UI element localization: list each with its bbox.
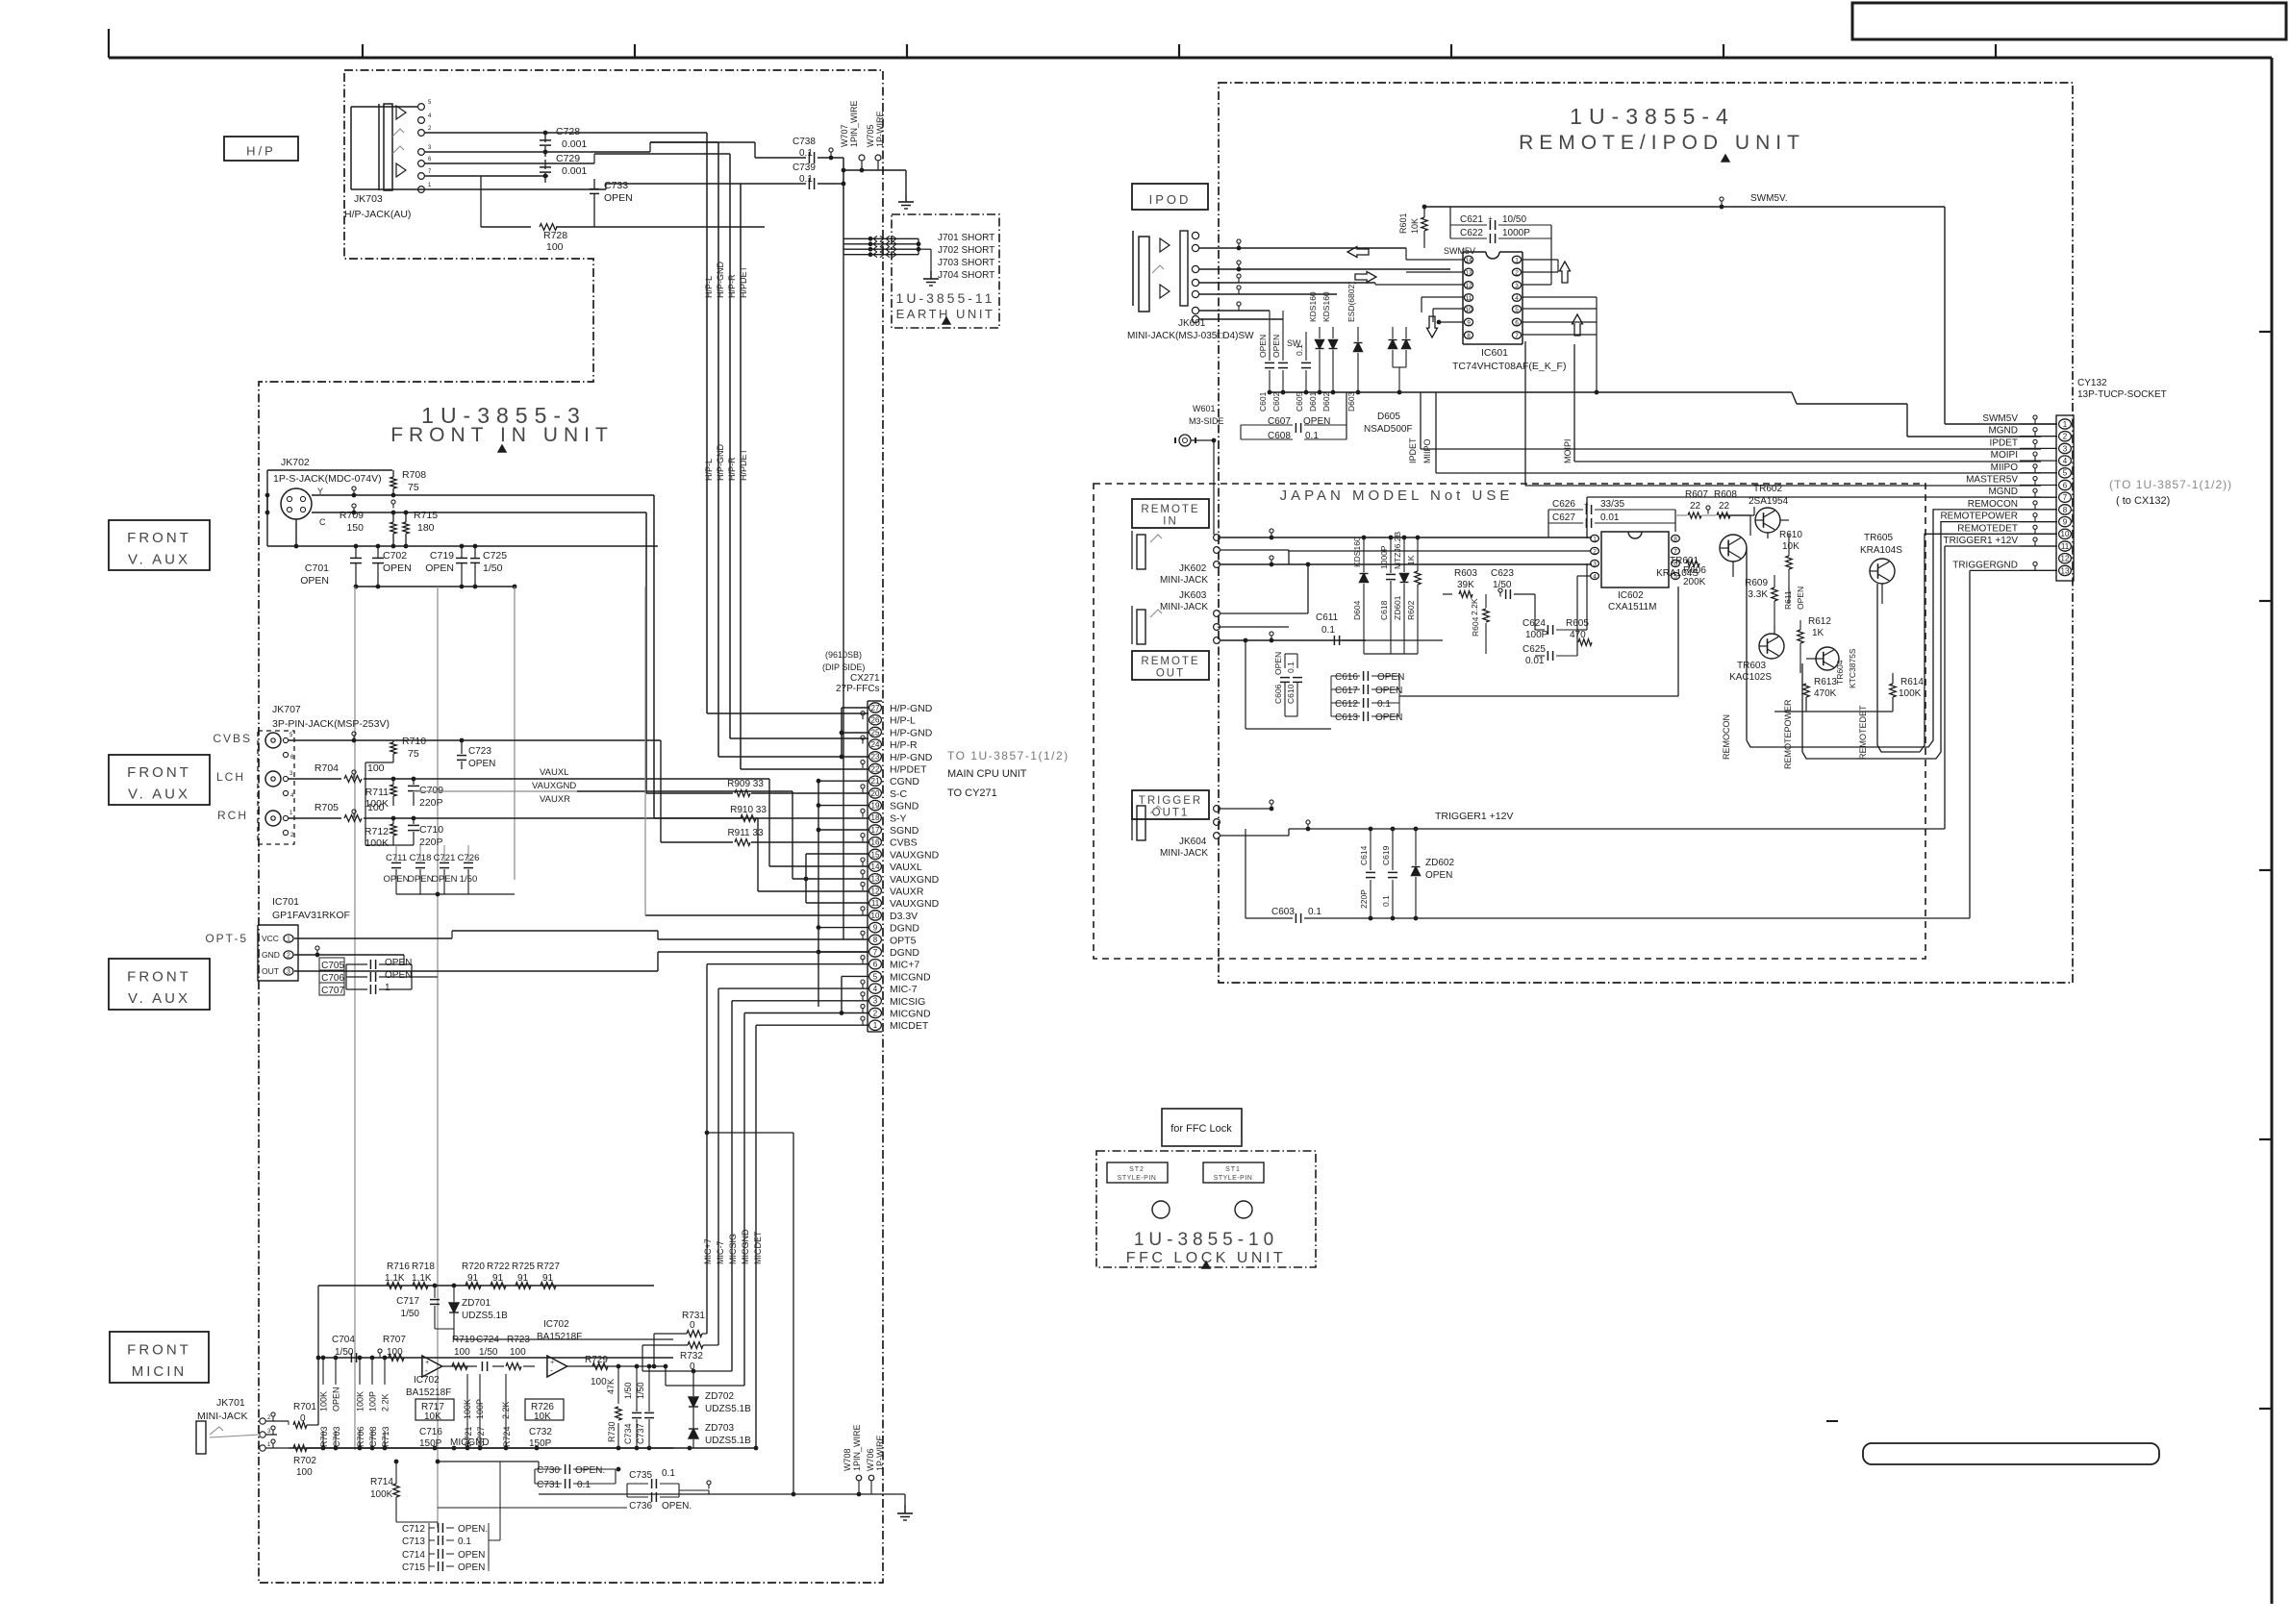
svg-text:D604: D604: [1352, 600, 1362, 620]
svg-text:OPEN: OPEN: [432, 874, 458, 885]
svg-text:DGND: DGND: [890, 947, 919, 959]
svg-text:IC702: IC702: [543, 1319, 569, 1330]
svg-text:CGND: CGND: [890, 776, 919, 787]
svg-text:OPEN.: OPEN.: [458, 1524, 488, 1535]
svg-text:100: 100: [367, 762, 385, 774]
svg-text:8: 8: [873, 936, 878, 944]
svg-text:3: 3: [287, 969, 290, 976]
svg-text:0.01: 0.01: [1600, 512, 1620, 523]
svg-text:26: 26: [871, 716, 880, 725]
svg-text:R606: R606: [1683, 565, 1706, 576]
svg-text:TO 1U-3857-1(1/2): TO 1U-3857-1(1/2): [947, 749, 1070, 762]
svg-text:0: 0: [690, 1362, 695, 1372]
svg-text:C721: C721: [434, 853, 456, 863]
svg-text:C716: C716: [419, 1427, 442, 1437]
svg-text:C606: C606: [1273, 684, 1283, 704]
svg-text:GND: GND: [262, 950, 280, 960]
svg-text:1000P: 1000P: [1502, 228, 1530, 238]
svg-text:5: 5: [2063, 469, 2068, 478]
svg-text:R613: R613: [1814, 677, 1837, 687]
svg-text:0.1: 0.1: [662, 1468, 675, 1479]
svg-text:CVBS: CVBS: [890, 837, 918, 849]
svg-text:ZD703: ZD703: [705, 1423, 734, 1434]
svg-text:OUT: OUT: [1156, 668, 1185, 680]
svg-text:0.1: 0.1: [1321, 625, 1335, 636]
svg-text:MICGND: MICGND: [890, 971, 931, 983]
svg-text:C735: C735: [629, 1470, 652, 1481]
svg-text:OPT-5: OPT-5: [205, 932, 248, 945]
svg-text:TRIGGER: TRIGGER: [1139, 795, 1202, 807]
svg-text:2.2K: 2.2K: [381, 1393, 390, 1412]
svg-text:R710: R710: [402, 736, 426, 747]
svg-text:MOIPI: MOIPI: [1563, 438, 1573, 463]
svg-text:R609: R609: [1745, 578, 1768, 588]
svg-text:MIC-7: MIC-7: [716, 1241, 725, 1265]
svg-text:VAUXL: VAUXL: [890, 862, 922, 873]
svg-text:D603: D603: [1346, 391, 1356, 412]
svg-text:MICIN: MICIN: [132, 1363, 188, 1380]
svg-text:C724: C724: [476, 1335, 499, 1345]
svg-text:R603: R603: [1454, 568, 1477, 579]
svg-text:OPEN: OPEN: [458, 1562, 485, 1573]
svg-text:BA15218F: BA15218F: [406, 1387, 451, 1398]
svg-text:3: 3: [2063, 444, 2068, 453]
svg-text:6: 6: [2063, 481, 2068, 489]
svg-text:1PIN_WIRE: 1PIN_WIRE: [852, 1424, 862, 1471]
svg-text:OPEN: OPEN: [1271, 335, 1281, 358]
svg-text:ZD701: ZD701: [462, 1298, 491, 1309]
svg-text:2: 2: [287, 953, 290, 960]
svg-text:180: 180: [417, 522, 435, 534]
svg-text:0.1: 0.1: [1295, 344, 1304, 356]
svg-text:R610: R610: [1779, 530, 1802, 540]
svg-text:C618: C618: [1379, 600, 1389, 620]
svg-text:5: 5: [1515, 307, 1519, 313]
svg-text:C715: C715: [402, 1562, 425, 1573]
svg-text:C710: C710: [419, 824, 443, 836]
svg-text:OPEN.: OPEN.: [575, 1465, 605, 1476]
svg-text:R719: R719: [452, 1335, 475, 1345]
svg-text:100K: 100K: [356, 1391, 365, 1412]
svg-text:C728: C728: [556, 126, 580, 137]
svg-text:2.2K: 2.2K: [1470, 598, 1479, 615]
svg-text:11: 11: [871, 899, 880, 908]
svg-text:1U-3855-4: 1U-3855-4: [1570, 104, 1735, 129]
svg-text:R607: R607: [1685, 489, 1708, 500]
svg-text:0.01: 0.01: [1525, 656, 1545, 666]
svg-text:100: 100: [296, 1467, 313, 1478]
svg-text:13P-TUCP-SOCKET: 13P-TUCP-SOCKET: [2077, 389, 2167, 400]
svg-text:R730: R730: [607, 1421, 617, 1442]
svg-text:10: 10: [2061, 530, 2070, 538]
svg-text:STYLE-PIN: STYLE-PIN: [1118, 1175, 1157, 1182]
svg-text:C704: C704: [332, 1335, 355, 1345]
svg-text:IPDET: IPDET: [1408, 437, 1418, 463]
svg-text:MIC+7: MIC+7: [703, 1238, 713, 1264]
svg-text:OPT5: OPT5: [890, 935, 917, 946]
svg-text:C613: C613: [1335, 712, 1358, 723]
svg-text:C726: C726: [458, 853, 480, 863]
svg-text:(TO 1U-3857-1(1/2)): (TO 1U-3857-1(1/2)): [2109, 478, 2232, 491]
svg-text:SGND: SGND: [890, 801, 919, 812]
svg-text:2: 2: [873, 1009, 878, 1017]
svg-text:H/P-R: H/P-R: [727, 274, 737, 298]
svg-text:REMOTEPOWER: REMOTEPOWER: [1940, 512, 2018, 522]
svg-text:2: 2: [2063, 433, 2068, 441]
svg-text:TRIGGER1 +12V: TRIGGER1 +12V: [1435, 811, 1513, 822]
svg-text:0.001: 0.001: [562, 138, 587, 150]
svg-text:75: 75: [408, 482, 419, 493]
svg-text:OUT1: OUT1: [1152, 808, 1190, 819]
svg-text:R701: R701: [293, 1402, 316, 1412]
svg-text:C: C: [319, 517, 326, 527]
svg-text:13: 13: [1465, 269, 1472, 276]
svg-text:R614: R614: [1900, 677, 1924, 687]
svg-text:7: 7: [873, 948, 878, 957]
svg-text:OPEN: OPEN: [384, 874, 410, 885]
svg-text:VAUXGND: VAUXGND: [890, 874, 940, 886]
svg-text:TR603: TR603: [1737, 661, 1766, 671]
svg-text:1/50: 1/50: [483, 562, 503, 574]
svg-text:OPEN: OPEN: [604, 192, 633, 204]
svg-text:JK602: JK602: [1179, 563, 1207, 574]
svg-text:M3-SIDE: M3-SIDE: [1189, 416, 1224, 426]
svg-text:0.1: 0.1: [458, 1537, 471, 1547]
svg-text:R604: R604: [1471, 616, 1480, 637]
svg-text:0.1: 0.1: [577, 1480, 591, 1490]
svg-text:12: 12: [1465, 283, 1472, 289]
svg-text:1000P: 1000P: [1379, 545, 1389, 569]
svg-text:OPEN: OPEN: [1375, 712, 1402, 723]
svg-text:C713: C713: [402, 1537, 425, 1547]
svg-text:+: +: [425, 1360, 429, 1366]
svg-text:IN: IN: [1163, 516, 1178, 528]
svg-text:19: 19: [871, 802, 880, 811]
svg-text:C601: C601: [1258, 391, 1268, 412]
svg-text:MGND: MGND: [1988, 426, 2018, 437]
svg-text:C734: C734: [623, 1423, 633, 1444]
svg-text:R712: R712: [365, 826, 389, 837]
svg-text:21: 21: [871, 777, 880, 786]
svg-text:C739: C739: [793, 162, 816, 173]
svg-text:D602: D602: [1321, 391, 1331, 412]
svg-text:C616: C616: [1335, 672, 1358, 683]
svg-text:H/P-GND: H/P-GND: [716, 444, 725, 482]
svg-text:FRONT: FRONT: [127, 764, 191, 781]
svg-text:R601: R601: [1398, 212, 1408, 234]
svg-text:JK701: JK701: [216, 1397, 245, 1409]
svg-text:10K: 10K: [1782, 541, 1799, 552]
svg-text:OPEN: OPEN: [385, 958, 412, 968]
svg-text:MINI-JACK: MINI-JACK: [1160, 848, 1208, 859]
svg-text:OPEN: OPEN: [425, 562, 454, 574]
svg-text:0.1: 0.1: [1308, 907, 1321, 917]
svg-text:KTC3875S: KTC3875S: [1848, 648, 1857, 688]
svg-text:0: 0: [690, 1320, 695, 1331]
svg-text:JK604: JK604: [1179, 837, 1207, 847]
svg-text:MICGND: MICGND: [741, 1229, 750, 1264]
svg-text:R711: R711: [365, 787, 389, 798]
svg-text:12: 12: [871, 887, 880, 895]
svg-text:CY132: CY132: [2077, 378, 2107, 388]
svg-text:STYLE-PIN: STYLE-PIN: [1214, 1175, 1253, 1182]
svg-text:7: 7: [1515, 333, 1519, 339]
svg-text:R722: R722: [487, 1262, 510, 1272]
svg-text:GP1FAV31RKOF: GP1FAV31RKOF: [272, 910, 350, 921]
svg-text:D601: D601: [1308, 391, 1318, 412]
svg-text:9: 9: [1467, 319, 1471, 326]
svg-text:MICGND: MICGND: [450, 1437, 490, 1448]
svg-text:OPEN: OPEN: [1796, 587, 1805, 610]
svg-text:C717: C717: [396, 1296, 419, 1307]
svg-text:2: 2: [1515, 269, 1519, 276]
svg-text:R909 33: R909 33: [727, 779, 764, 789]
svg-text:OPEN: OPEN: [383, 562, 412, 574]
svg-text:VAUXGND: VAUXGND: [890, 849, 940, 861]
svg-text:R724: R724: [502, 1426, 512, 1447]
svg-text:OUT: OUT: [262, 966, 279, 976]
svg-text:R705: R705: [315, 802, 339, 813]
svg-text:C718: C718: [410, 853, 432, 863]
svg-text:+: +: [550, 1360, 554, 1366]
svg-text:1/50: 1/50: [479, 1347, 498, 1358]
svg-text:MINI-JACK: MINI-JACK: [1160, 575, 1208, 586]
svg-text:4: 4: [873, 985, 878, 993]
svg-text:OPEN: OPEN: [1377, 672, 1404, 683]
svg-text:R714: R714: [370, 1477, 393, 1487]
svg-text:C706: C706: [321, 973, 344, 984]
svg-text:SWM5V: SWM5V: [1444, 246, 1475, 256]
svg-text:4: 4: [1593, 573, 1597, 580]
svg-text:OPEN: OPEN: [1273, 652, 1283, 675]
svg-text:KDS160: KDS160: [1352, 537, 1362, 567]
svg-text:R612: R612: [1808, 616, 1831, 627]
svg-text:C719: C719: [430, 550, 454, 562]
svg-text:H/P-GND: H/P-GND: [890, 703, 933, 714]
svg-text:1P-WIRE: 1P-WIRE: [875, 1435, 885, 1471]
svg-text:R709: R709: [340, 510, 364, 521]
svg-text:J701 SHORT: J701 SHORT: [938, 233, 994, 243]
svg-text:R611: R611: [1783, 590, 1793, 610]
svg-text:JAPAN MODEL Not USE: JAPAN MODEL Not USE: [1280, 487, 1514, 504]
svg-text:FRONT: FRONT: [127, 969, 191, 986]
svg-text:1.1K: 1.1K: [412, 1273, 432, 1284]
svg-text:13: 13: [2061, 566, 2070, 575]
svg-text:R723: R723: [507, 1335, 530, 1345]
svg-text:9: 9: [2063, 518, 2068, 527]
svg-text:22: 22: [1690, 501, 1701, 512]
svg-text:H/P-R: H/P-R: [890, 739, 918, 751]
svg-text:W707: W707: [840, 124, 849, 147]
svg-text:ESD(6802): ESD(6802): [1346, 282, 1356, 322]
svg-text:3.3K: 3.3K: [1748, 589, 1768, 600]
svg-text:1: 1: [287, 937, 290, 943]
svg-text:1: 1: [873, 1021, 878, 1030]
svg-text:7: 7: [1673, 548, 1677, 555]
svg-text:V. AUX: V. AUX: [128, 551, 190, 567]
svg-text:3: 3: [1593, 561, 1597, 567]
svg-text:C627: C627: [1552, 512, 1575, 523]
svg-text:W601: W601: [1193, 404, 1216, 413]
svg-text:R703: R703: [319, 1426, 329, 1447]
svg-text:470K: 470K: [1814, 688, 1837, 699]
svg-text:22: 22: [1719, 501, 1730, 512]
svg-text:16: 16: [871, 838, 880, 847]
svg-text:1: 1: [2063, 420, 2068, 429]
svg-text:220P: 220P: [419, 837, 443, 848]
svg-text:100: 100: [591, 1377, 607, 1387]
svg-text:C733: C733: [604, 180, 628, 191]
svg-text:D605: D605: [1377, 412, 1400, 422]
svg-text:MAIN CPU UNIT: MAIN CPU UNIT: [947, 768, 1027, 780]
svg-text:VAUXL: VAUXL: [540, 767, 568, 778]
svg-text:NSAD500F: NSAD500F: [1364, 424, 1413, 435]
svg-text:IC602: IC602: [1618, 590, 1644, 601]
svg-text:10: 10: [1465, 307, 1472, 313]
svg-text:CXA1511M: CXA1511M: [1608, 602, 1656, 612]
svg-text:10K: 10K: [424, 1412, 441, 1422]
svg-text:OPEN.: OPEN.: [662, 1501, 692, 1512]
svg-text:39K: 39K: [1457, 580, 1474, 590]
svg-text:1P-S-JACK(MDC-074V): 1P-S-JACK(MDC-074V): [273, 473, 382, 485]
svg-text:for FFC Lock: for FFC Lock: [1170, 1123, 1232, 1135]
svg-text:H/P-L: H/P-L: [704, 459, 714, 481]
svg-text:1/50: 1/50: [401, 1309, 420, 1319]
svg-text:R727: R727: [537, 1262, 560, 1272]
svg-text:JK707: JK707: [272, 704, 301, 715]
svg-text:R720: R720: [462, 1262, 485, 1272]
svg-text:27P-FFCs: 27P-FFCs: [836, 684, 880, 694]
svg-text:H/P-GND: H/P-GND: [716, 262, 725, 299]
svg-text:C707: C707: [321, 986, 344, 996]
svg-text:C714: C714: [402, 1550, 425, 1561]
svg-text:REMOTE/IPOD UNIT: REMOTE/IPOD UNIT: [1519, 132, 1805, 154]
svg-text:22: 22: [871, 764, 880, 773]
svg-text:R702: R702: [293, 1456, 316, 1466]
svg-text:UDZS5.1B: UDZS5.1B: [705, 1404, 751, 1414]
svg-text:H/P-L: H/P-L: [890, 715, 916, 727]
svg-text:MINI-JACK(MSJ-035□D4)SW: MINI-JACK(MSJ-035□D4)SW: [1127, 331, 1254, 341]
svg-text:MICDET: MICDET: [753, 1231, 763, 1264]
svg-text:0.001: 0.001: [562, 165, 587, 177]
svg-text:1U-3855-10: 1U-3855-10: [1134, 1230, 1278, 1250]
svg-text:27: 27: [871, 704, 880, 712]
svg-text:220P: 220P: [1359, 889, 1369, 909]
svg-text:DGND: DGND: [890, 923, 919, 935]
svg-text:15: 15: [871, 850, 880, 859]
svg-text:R708: R708: [402, 469, 426, 481]
svg-text:C736: C736: [629, 1501, 652, 1512]
svg-text:C703: C703: [332, 1426, 341, 1447]
svg-text:REMOCON: REMOCON: [1968, 499, 2018, 510]
svg-text:C624: C624: [1522, 618, 1546, 629]
svg-text:8: 8: [2063, 506, 2068, 514]
svg-text:TRIGGERGND: TRIGGERGND: [1952, 560, 2018, 570]
svg-text:24: 24: [871, 740, 880, 749]
svg-text:REMOTE: REMOTE: [1141, 656, 1199, 667]
svg-text:OPEN: OPEN: [1258, 335, 1268, 358]
svg-text:47K: 47K: [606, 1379, 616, 1394]
svg-text:ZD601: ZD601: [1393, 595, 1402, 620]
svg-text:OPEN: OPEN: [468, 759, 495, 769]
svg-text:1K: 1K: [1406, 555, 1416, 565]
svg-text:R715: R715: [414, 510, 438, 521]
svg-text:3: 3: [873, 997, 878, 1006]
svg-text:0.1: 0.1: [799, 148, 813, 159]
svg-text:20: 20: [871, 789, 880, 798]
svg-text:UDZS5.1B: UDZS5.1B: [705, 1436, 751, 1446]
svg-text:C705: C705: [321, 961, 344, 971]
svg-text:10: 10: [871, 912, 880, 920]
svg-text:3: 3: [1515, 283, 1519, 289]
svg-text:C617: C617: [1335, 686, 1358, 696]
svg-text:3P-PIN-JACK(MSP-253V): 3P-PIN-JACK(MSP-253V): [272, 718, 390, 730]
svg-text:1K: 1K: [1812, 628, 1824, 638]
svg-text:1P-WIRE: 1P-WIRE: [875, 111, 885, 147]
svg-text:W705: W705: [866, 124, 875, 147]
svg-text:C709: C709: [419, 785, 443, 796]
svg-text:C621: C621: [1460, 214, 1483, 225]
svg-text:11: 11: [1466, 295, 1472, 302]
svg-text:D3.3V: D3.3V: [890, 911, 918, 922]
svg-text:75: 75: [408, 748, 419, 760]
svg-text:IPOD: IPOD: [1149, 192, 1192, 207]
svg-text:100K: 100K: [319, 1391, 329, 1412]
svg-text:100K: 100K: [365, 837, 389, 849]
svg-text:7: 7: [2063, 493, 2068, 502]
svg-text:0.1: 0.1: [799, 174, 813, 185]
svg-text:VAUXR: VAUXR: [890, 887, 924, 898]
svg-text:MIIPO: MIIPO: [1422, 438, 1432, 463]
svg-text:REMOTEPOWER: REMOTEPOWER: [1783, 699, 1793, 769]
svg-text:IC601: IC601: [1481, 347, 1508, 359]
svg-text:4: 4: [2063, 457, 2068, 465]
svg-text:IC702: IC702: [414, 1375, 440, 1386]
svg-text:10/50: 10/50: [1502, 214, 1526, 225]
svg-text:R608: R608: [1714, 489, 1737, 500]
svg-text:SWM5V: SWM5V: [1982, 413, 2018, 424]
svg-text:R725: R725: [512, 1262, 535, 1272]
svg-text:MICSIG: MICSIG: [890, 996, 925, 1008]
svg-text:2SA1954: 2SA1954: [1749, 496, 1789, 507]
svg-text:V. AUX: V. AUX: [128, 786, 190, 802]
svg-text:W706: W706: [866, 1448, 875, 1471]
svg-text:KRA104S: KRA104S: [1860, 545, 1902, 556]
svg-text:W708: W708: [843, 1448, 852, 1471]
svg-text:1: 1: [1515, 257, 1519, 263]
svg-text:OPEN: OPEN: [1375, 686, 1402, 696]
svg-text:KDS160: KDS160: [1308, 291, 1318, 322]
svg-text:150: 150: [346, 522, 364, 534]
svg-text:REMOTEDET: REMOTEDET: [1957, 523, 2018, 534]
svg-text:1U-3855-11: 1U-3855-11: [896, 290, 995, 306]
svg-text:1PIN_WIRE: 1PIN_WIRE: [849, 100, 859, 147]
svg-text:R713: R713: [381, 1426, 390, 1447]
svg-text:ST2: ST2: [1129, 1166, 1145, 1173]
svg-text:25: 25: [871, 728, 880, 737]
svg-text:R704: R704: [315, 762, 339, 774]
svg-text:MTZJ6.2B: MTZJ6.2B: [1393, 531, 1402, 569]
svg-text:100: 100: [546, 241, 564, 253]
svg-text:6: 6: [1515, 319, 1519, 326]
svg-text:MIC+7: MIC+7: [890, 960, 919, 971]
svg-text:100: 100: [454, 1347, 470, 1358]
svg-text:17: 17: [871, 826, 880, 835]
svg-text:TRIGGER1 +12V: TRIGGER1 +12V: [1943, 536, 2018, 546]
svg-text:TO CY271: TO CY271: [947, 787, 997, 799]
svg-text:0.1: 0.1: [1381, 895, 1391, 907]
svg-text:MOIPI: MOIPI: [1991, 450, 2018, 461]
